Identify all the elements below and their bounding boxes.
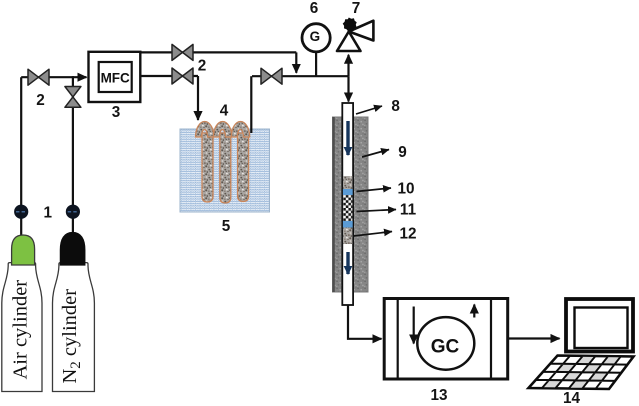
callout arrow 10 bbox=[357, 188, 392, 192]
svg-text:Air cylinder: Air cylinder bbox=[10, 280, 32, 380]
svg-text:GC: GC bbox=[431, 337, 460, 358]
wire N2 riser bbox=[72, 76, 74, 238]
laptop 14 keyboard bbox=[529, 356, 634, 390]
valve (after bubbler) bbox=[261, 68, 282, 84]
three-way valve 7 bbox=[337, 18, 373, 52]
svg-text:7: 7 bbox=[352, 0, 361, 17]
wire bypass drop with arrow bbox=[295, 52, 297, 72]
wire bubbler outlet riser bbox=[250, 76, 252, 133]
wire bypass line from MFC top to junction bbox=[141, 51, 297, 53]
wire main line to reactor tee bbox=[252, 75, 349, 77]
flow arrow in tube top bbox=[346, 121, 349, 155]
laptop 14 screen bbox=[566, 299, 633, 352]
callout arrow 12 bbox=[354, 232, 393, 237]
callout arrow 11 bbox=[357, 210, 397, 212]
svg-text:G: G bbox=[310, 29, 321, 44]
svg-text:5: 5 bbox=[222, 218, 231, 235]
furnace block 9 bbox=[333, 117, 369, 292]
svg-text:8: 8 bbox=[391, 98, 400, 115]
wire air feed horizontal into MFC bbox=[21, 76, 86, 78]
ball valve 1 on N2 cylinder bbox=[66, 205, 79, 218]
quartz wool plug 12 bbox=[343, 228, 352, 245]
pressure gauge 6 bbox=[302, 24, 330, 52]
wire drop into bubbler with arrow bbox=[197, 76, 199, 120]
svg-text:4: 4 bbox=[220, 103, 229, 120]
svg-text:MFC: MFC bbox=[101, 71, 130, 86]
flow arrow in tube bottom bbox=[346, 252, 349, 274]
svg-text:2: 2 bbox=[198, 58, 207, 75]
wire air riser bbox=[20, 77, 22, 238]
N2 cylinder bbox=[53, 233, 95, 392]
wire riser to 3-way valve with arrow bbox=[347, 55, 349, 76]
wire gauge riser bbox=[315, 51, 317, 76]
reactor tube 8 bbox=[342, 103, 353, 305]
blue seal lower bbox=[343, 221, 353, 228]
callout arrow 9 bbox=[362, 150, 389, 158]
blue seal upper bbox=[343, 189, 353, 195]
bubbler coil 4 legs bbox=[202, 133, 249, 203]
water bath 5 bbox=[180, 129, 270, 212]
valve 2 (air feed line) bbox=[28, 69, 49, 85]
svg-text:10: 10 bbox=[397, 181, 414, 198]
ball valve 1 on air cylinder bbox=[15, 205, 28, 218]
wire MFC mid outlet bbox=[141, 75, 199, 77]
valve 2 (bypass line) bbox=[172, 44, 193, 60]
svg-text:13: 13 bbox=[430, 387, 447, 404]
wire reactor outlet bbox=[348, 305, 382, 339]
svg-text:3: 3 bbox=[112, 104, 121, 121]
svg-text:6: 6 bbox=[310, 0, 319, 17]
svg-text:9: 9 bbox=[398, 144, 407, 161]
callout arrow 8 bbox=[356, 106, 382, 114]
bubbler coil 4 arcs bbox=[196, 122, 250, 138]
GC box 13 bbox=[384, 299, 508, 380]
valve 2b (line to bubbler) bbox=[172, 68, 193, 84]
svg-text:N2 cylinder: N2 cylinder bbox=[59, 289, 84, 384]
MFC U3 box bbox=[89, 52, 141, 102]
svg-text:14: 14 bbox=[563, 390, 581, 406]
quartz wool plug 10 bbox=[343, 176, 352, 189]
wire GC to laptop bbox=[508, 337, 560, 339]
svg-text:1: 1 bbox=[43, 205, 52, 222]
air cylinder bbox=[2, 235, 42, 392]
valve 2 (N2 line, vertical) bbox=[65, 87, 81, 108]
svg-text:11: 11 bbox=[400, 202, 417, 219]
svg-text:12: 12 bbox=[399, 226, 416, 243]
catalyst bed 11 bbox=[343, 195, 352, 221]
wire drop to reactor with arrow bbox=[347, 76, 349, 101]
svg-text:2: 2 bbox=[36, 92, 45, 109]
